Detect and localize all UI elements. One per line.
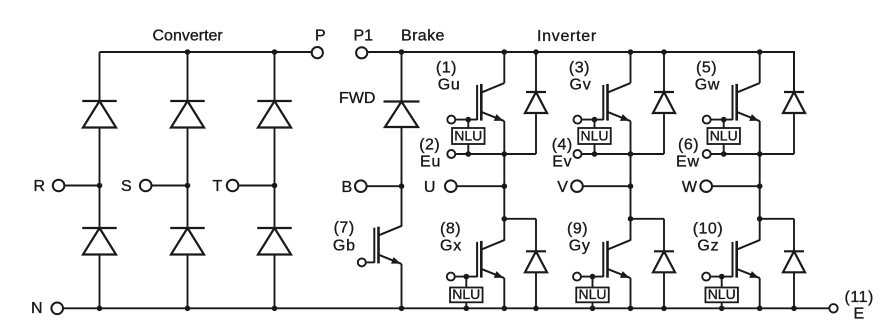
wire U output	[457, 185, 505, 187]
svg-text:(2): (2)	[419, 137, 440, 154]
wire NLU bottom link Gx	[465, 302, 467, 308]
diode D4 (lower arm)	[82, 228, 117, 255]
wire phase leg mid	[503, 154, 505, 241]
svg-text:(4): (4)	[552, 137, 573, 154]
junction Gu emitter node	[502, 151, 508, 157]
svg-text:FWD: FWD	[339, 90, 375, 107]
junction NLU / aux emitter Eu	[466, 151, 472, 157]
junction NLU / aux emitter Ew	[721, 151, 727, 157]
svg-text:P1: P1	[354, 28, 374, 45]
junction gate / NLU Gv	[592, 117, 598, 123]
wire NLU top link Gu	[467, 120, 469, 128]
wire NLU top link Gy	[592, 277, 594, 288]
svg-text:NLU: NLU	[710, 128, 738, 144]
wire lower diode branch U	[504, 218, 536, 220]
wire R input	[64, 185, 99, 187]
wire phase leg mid	[630, 154, 632, 241]
svg-text:(11): (11)	[845, 289, 874, 306]
svg-text:(9): (9)	[567, 221, 588, 238]
gate terminal Gy	[573, 273, 581, 281]
wire Gy emitter to rail	[630, 278, 632, 308]
svg-text:Eu: Eu	[420, 154, 441, 171]
svg-text:NLU: NLU	[580, 128, 608, 144]
junction top rail / Gw collector	[757, 49, 763, 55]
terminal T	[227, 180, 239, 192]
NLU unit for Gw	[707, 128, 740, 144]
diode D5 (lower arm)	[170, 228, 205, 255]
freewheel diode upper W	[793, 52, 795, 154]
junction NLU Gz / bottom rail	[719, 306, 725, 312]
wire Gu emitter down	[503, 121, 505, 154]
junction top rail / FWD	[399, 49, 405, 55]
junction gate / NLU Gu	[466, 117, 472, 123]
svg-text:Gu: Gu	[438, 77, 461, 94]
transistor lower IGBT Gx	[477, 240, 504, 278]
junction leg 3 / N rail	[272, 306, 278, 312]
svg-text:NLU: NLU	[578, 286, 606, 302]
junction gate / NLU Gw	[721, 117, 727, 123]
transistor lower IGBT Gz	[733, 240, 760, 278]
junction on top rail at leg S	[185, 49, 191, 55]
aux emitter terminal Eu	[447, 150, 455, 158]
junction B / brake leg	[399, 183, 405, 189]
svg-text:(5): (5)	[696, 60, 717, 77]
svg-text:B: B	[342, 179, 353, 196]
svg-text:Ew: Ew	[676, 154, 700, 171]
svg-text:(8): (8)	[440, 221, 461, 238]
svg-text:E: E	[854, 306, 865, 323]
diode D2 (upper arm)	[170, 101, 205, 128]
junction Gx emitter / bottom rail	[502, 306, 508, 312]
junction Gy emitter / bottom rail	[628, 306, 634, 312]
svg-text:(10): (10)	[693, 221, 723, 238]
terminal V	[571, 180, 583, 192]
wire W output	[712, 185, 760, 187]
junction lower diode / bottom rail	[533, 306, 539, 312]
junction Gv emitter node	[628, 151, 634, 157]
junction lower diode / bottom rail	[791, 306, 797, 312]
NLU unit for Gx	[450, 286, 483, 302]
terminal R	[53, 180, 65, 192]
wire NLU top link Gw	[723, 120, 725, 128]
svg-text:V: V	[557, 179, 568, 196]
transistor upper IGBT Gu	[477, 83, 504, 121]
svg-text:Inverter: Inverter	[537, 28, 597, 45]
freewheel diode lower W	[793, 219, 795, 308]
svg-text:(6): (6)	[678, 137, 699, 154]
aux emitter terminal Ev	[574, 150, 582, 158]
junction leg 1 / phase input	[97, 183, 103, 189]
terminal E	[829, 304, 837, 312]
svg-text:Brake: Brake	[401, 28, 445, 45]
wire converter leg 3	[274, 52, 276, 308]
svg-text:Gw: Gw	[695, 77, 721, 94]
junction leg 2 / phase input	[185, 183, 191, 189]
junction top rail / Gu collector	[502, 49, 508, 55]
transistor lower IGBT Gy	[603, 240, 630, 278]
wire lower diode branch W	[760, 218, 794, 220]
svg-text:Gb: Gb	[333, 238, 356, 255]
wire Gw collector from P rail	[759, 52, 761, 83]
wire phase leg mid	[759, 154, 761, 241]
junction Gz emitter / bottom rail	[757, 306, 763, 312]
svg-text:Converter: Converter	[153, 28, 224, 45]
wire Gu collector from P rail	[503, 52, 505, 83]
wire NLU bottom link Gu	[467, 144, 469, 154]
svg-text:Gv: Gv	[570, 77, 592, 94]
diode D1 (upper arm)	[82, 101, 117, 128]
svg-text:N: N	[31, 300, 43, 317]
wire Gz emitter to rail	[759, 278, 761, 308]
terminal W	[700, 180, 712, 192]
wire V output	[583, 185, 631, 187]
diode D6 (lower arm)	[257, 228, 292, 255]
transistor Q7 brake IGBT Gb	[374, 226, 401, 264]
junction Gb emitter / bottom rail	[399, 306, 405, 312]
gate terminal Gw	[703, 116, 711, 124]
junction W / phase leg	[757, 183, 763, 189]
junction top rail / diode U upper	[533, 49, 539, 55]
wire converter leg 2	[187, 52, 189, 308]
gate terminal Gz	[702, 273, 710, 281]
junction on top rail at leg T	[272, 49, 278, 55]
junction leg 1 / N rail	[97, 306, 103, 312]
wire converter leg 1	[99, 52, 101, 308]
junction V / phase leg	[628, 183, 634, 189]
wire Gb emitter to N rail	[401, 264, 403, 308]
svg-text:P: P	[315, 28, 326, 45]
freewheel diode lower V	[663, 219, 665, 308]
wire S input	[152, 185, 188, 187]
freewheel diode lower U	[535, 219, 537, 308]
terminal N	[51, 303, 63, 315]
aux emitter terminal Ew	[703, 150, 711, 158]
wire B input	[367, 185, 402, 187]
wire Gx gate lead	[455, 276, 477, 278]
NLU unit for Gu	[452, 128, 485, 144]
junction top rail / diode V upper	[661, 49, 667, 55]
wire converter top rail	[100, 51, 312, 53]
wire brake leg upper	[401, 52, 403, 227]
svg-text:NLU: NLU	[454, 128, 482, 144]
wire Gz gate lead	[710, 276, 732, 278]
wire bottom rail N to E	[63, 307, 829, 309]
wire NLU top link Gx	[465, 277, 467, 288]
wire Gv gate lead	[582, 119, 604, 121]
wire NLU bottom link Gy	[592, 302, 594, 308]
svg-text:R: R	[34, 178, 46, 195]
gate terminal Gb	[358, 258, 366, 266]
wire Gb gate lead	[366, 261, 375, 263]
transistor upper IGBT Gw	[733, 83, 760, 121]
junction NLU Gx / bottom rail	[464, 306, 470, 312]
junction top rail / Gv collector	[628, 49, 634, 55]
svg-text:(3): (3)	[569, 60, 590, 77]
junction gate / NLU Gx	[464, 274, 470, 280]
junction NLU / aux emitter Ev	[592, 151, 598, 157]
NLU unit for Gz	[705, 286, 738, 302]
wire NLU bottom link Gv	[594, 144, 596, 154]
wire inverter top rail	[367, 52, 794, 92]
wire lower diode branch V	[631, 218, 665, 220]
diode FWD	[384, 102, 420, 128]
gate terminal Gx	[447, 273, 455, 281]
junction NLU Gy / bottom rail	[590, 306, 596, 312]
wire aux emitter line Eu	[455, 153, 536, 155]
wire Gv collector from P rail	[630, 52, 632, 83]
svg-text:NLU: NLU	[452, 286, 480, 302]
svg-text:T: T	[213, 178, 223, 195]
junction gate / NLU Gz	[719, 274, 725, 280]
junction Gw emitter node	[757, 151, 763, 157]
junction U / phase leg	[502, 183, 508, 189]
svg-text:Gx: Gx	[440, 238, 462, 255]
svg-text:Ev: Ev	[552, 154, 572, 171]
terminal U	[445, 180, 457, 192]
diode D3 (upper arm)	[257, 101, 292, 128]
gate terminal Gv	[574, 116, 582, 124]
gate terminal Gu	[447, 116, 455, 124]
svg-text:W: W	[682, 179, 698, 196]
wire aux emitter line Ew	[711, 153, 794, 155]
svg-text:Gz: Gz	[697, 238, 719, 255]
freewheel diode upper U	[535, 52, 537, 154]
junction lower diode branch U	[502, 216, 508, 222]
freewheel diode upper V	[663, 52, 665, 154]
junction leg 2 / N rail	[185, 306, 191, 312]
wire Gv emitter down	[630, 121, 632, 154]
wire Gu gate lead	[455, 119, 477, 121]
svg-text:Gy: Gy	[569, 238, 591, 255]
wire T input	[238, 185, 274, 187]
terminal P	[312, 47, 323, 58]
svg-text:U: U	[424, 179, 436, 196]
svg-text:(7): (7)	[334, 220, 355, 237]
junction lower diode branch V	[628, 216, 634, 222]
svg-text:(1): (1)	[436, 60, 457, 77]
wire aux emitter line Ev	[582, 153, 665, 155]
wire Gy gate lead	[581, 276, 603, 278]
svg-text:S: S	[121, 178, 132, 195]
wire NLU top link Gv	[594, 120, 596, 128]
terminal S	[140, 180, 152, 192]
transistor upper IGBT Gv	[603, 83, 630, 121]
wire Gx emitter to rail	[503, 278, 505, 308]
NLU unit for Gy	[576, 286, 609, 302]
junction leg 3 / phase input	[272, 183, 278, 189]
junction lower diode / bottom rail	[661, 306, 667, 312]
terminal P1	[356, 47, 367, 58]
wire NLU bottom link Gw	[723, 144, 725, 154]
junction gate / NLU Gy	[590, 274, 596, 280]
wire NLU top link Gz	[721, 277, 723, 288]
wire Gw gate lead	[711, 119, 733, 121]
junction lower diode branch W	[757, 216, 763, 222]
wire NLU bottom link Gz	[721, 302, 723, 308]
terminal B	[355, 180, 367, 192]
svg-text:NLU: NLU	[708, 286, 736, 302]
wire Gw emitter down	[759, 121, 761, 154]
NLU unit for Gv	[578, 128, 611, 144]
